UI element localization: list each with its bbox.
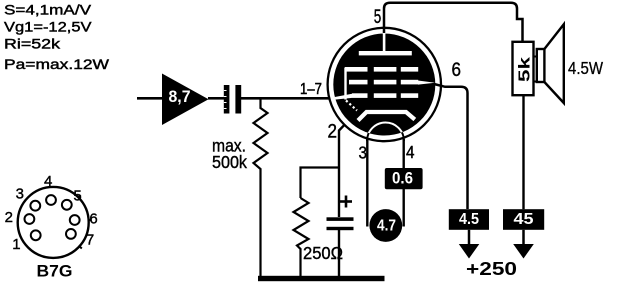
speaker 4.5W [537, 24, 564, 103]
svg-text:2: 2 [328, 122, 338, 143]
svg-text:+250: +250 [466, 259, 517, 279]
capacitor C2 cathode bypass [327, 217, 354, 277]
svg-text:5: 5 [374, 7, 382, 28]
svg-text:8,7: 8,7 [169, 88, 191, 106]
socket pin hole 5 [62, 200, 72, 210]
svg-text:5k: 5k [517, 57, 534, 82]
resistor R2 250 ohm [294, 198, 309, 277]
socket pin hole 3 [30, 201, 40, 211]
wire grid [241, 97, 329, 100]
pin 5 lead [384, 3, 523, 42]
heater arc black outside [367, 123, 404, 142]
polarity label + [340, 196, 352, 208]
svg-text:B7G: B7G [37, 262, 73, 281]
label tube parameters [4, 3, 110, 74]
cathode [358, 112, 415, 121]
svg-text:3: 3 [359, 143, 368, 163]
svg-text:1–7: 1–7 [300, 81, 322, 98]
svg-text:2: 2 [5, 209, 13, 226]
svg-text:Pa=max.12W: Pa=max.12W [4, 57, 110, 73]
capacitor C1 coupling [224, 85, 241, 114]
svg-text:0.6: 0.6 [392, 169, 413, 188]
ground rail [258, 276, 385, 281]
socket pin numbers [5, 173, 98, 253]
svg-text:4: 4 [406, 142, 415, 162]
socket pin hole 7 [66, 229, 76, 239]
socket pin hole 4 [46, 195, 56, 205]
grid g1 row [334, 93, 419, 100]
svg-text:S=4,1mA/V: S=4,1mA/V [4, 3, 92, 19]
socket B7G outline [18, 187, 89, 258]
socket pin hole 2 [25, 214, 35, 224]
pin 6 lead [434, 84, 468, 209]
svg-text:500k: 500k [212, 152, 247, 172]
load resistor 5k (output transformer) [513, 42, 534, 209]
svg-text:3: 3 [16, 186, 24, 203]
wire cathode branch [301, 168, 340, 199]
wire source to capacitor [208, 97, 224, 100]
g3 internal link [344, 68, 346, 100]
grid g3 row [345, 67, 418, 72]
svg-text:4.7: 4.7 [377, 218, 396, 235]
value label max.500k [212, 136, 247, 173]
wire cathode (pin 2) [339, 118, 352, 218]
heater lead pin 4 [403, 139, 405, 227]
socket index ticks [78, 195, 91, 248]
tube V1 pentode envelope [328, 28, 441, 141]
tube black disc [333, 34, 435, 136]
svg-text:1: 1 [12, 236, 20, 253]
speaker connection stubs [534, 57, 538, 82]
svg-text:6: 6 [89, 211, 97, 228]
svg-text:6: 6 [452, 60, 462, 81]
svg-text:4: 4 [44, 173, 52, 190]
g3 to cathode dotted link [346, 101, 357, 111]
heater supply circle 4.7 [369, 209, 402, 242]
current box 0.6 [385, 168, 423, 189]
svg-text:7: 7 [86, 231, 94, 248]
current box 45 with arrow [503, 209, 544, 258]
resistor R1 max.500k [254, 98, 268, 277]
socket pin hole 6 [70, 215, 80, 225]
svg-text:Ri=52k: Ri=52k [4, 36, 61, 52]
svg-text:45: 45 [514, 211, 534, 228]
signal source triangle 8,7 [162, 74, 209, 126]
grid g2 row [349, 80, 435, 85]
svg-text:Vg1=-12,5V: Vg1=-12,5V [4, 20, 92, 36]
current box 4.5 with arrow [449, 209, 489, 258]
svg-text:4.5W: 4.5W [568, 58, 603, 78]
anode plate [359, 51, 412, 55]
svg-text:4.5: 4.5 [459, 211, 479, 228]
heater lead pin 3 [366, 139, 368, 227]
anode lead white [383, 33, 386, 52]
wire input [137, 97, 163, 100]
svg-text:250Ω: 250Ω [303, 243, 343, 263]
socket pin hole 1 [31, 230, 41, 240]
svg-text:5: 5 [73, 187, 81, 204]
